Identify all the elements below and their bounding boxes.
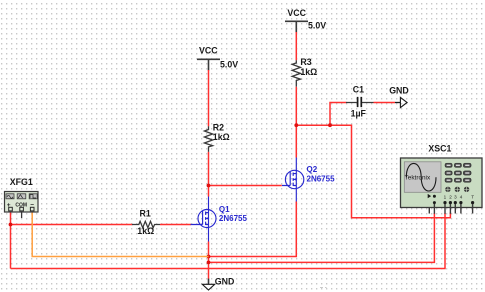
junction ground node A bbox=[207, 255, 211, 259]
wire R3 to Q2 drain bbox=[295, 87, 297, 158]
svg-text:Tektronix: Tektronix bbox=[405, 175, 431, 182]
svg-text:GND: GND bbox=[215, 277, 235, 287]
svg-text:VCC: VCC bbox=[287, 8, 306, 18]
wire C1 tap bbox=[330, 103, 347, 126]
svg-text:1µF: 1µF bbox=[351, 109, 367, 119]
svg-text:5.0V: 5.0V bbox=[308, 21, 326, 31]
svg-text:1kΩ: 1kΩ bbox=[300, 67, 317, 77]
capacitor C1 bbox=[346, 85, 374, 119]
wire node A to Q2 gate bbox=[209, 185, 282, 187]
svg-text:XSC1: XSC1 bbox=[428, 144, 451, 154]
junction node A bbox=[207, 184, 211, 188]
ground GND bbox=[202, 277, 234, 290]
svg-text:R1: R1 bbox=[140, 208, 151, 218]
svg-text:1kΩ: 1kΩ bbox=[213, 132, 230, 142]
resistor R2 bbox=[204, 123, 229, 152]
svg-text:VCC: VCC bbox=[199, 46, 218, 56]
wire XFG1 minus orange bbox=[32, 212, 208, 257]
wire R1 to Q1 gate bbox=[160, 224, 191, 226]
svg-text:4: 4 bbox=[460, 195, 463, 200]
scope terminal stubs bbox=[429, 204, 472, 214]
svg-text:3: 3 bbox=[454, 195, 457, 200]
wire XFG1 plus to scope channel 1 bbox=[11, 213, 446, 269]
power VCC1 bbox=[197, 46, 238, 71]
svg-text:2: 2 bbox=[449, 195, 452, 200]
wire VCC2 to R3 bbox=[295, 32, 297, 60]
svg-text:GND: GND bbox=[389, 86, 409, 96]
svg-text:XFG1: XFG1 bbox=[10, 177, 33, 187]
wire R2 to Q1 drain bbox=[208, 152, 210, 197]
XFG1 COM stub bbox=[21, 211, 23, 218]
svg-text:1kΩ: 1kΩ bbox=[137, 226, 154, 236]
svg-text:R3: R3 bbox=[300, 57, 311, 67]
wire output node to scope channel bbox=[296, 125, 450, 218]
wire VCC1 to R2 bbox=[208, 70, 210, 126]
oscilloscope XSC1 bbox=[401, 144, 483, 208]
svg-text:2N6755: 2N6755 bbox=[219, 214, 248, 223]
svg-text:Q1: Q1 bbox=[219, 205, 230, 214]
svg-text:Q2: Q2 bbox=[307, 165, 318, 174]
stray mark bbox=[320, 287, 327, 289]
wire C1 to GND connector bbox=[374, 102, 396, 104]
resistor R3 bbox=[292, 57, 317, 87]
svg-text:C1: C1 bbox=[353, 85, 364, 95]
junction C1 tap bbox=[328, 123, 332, 127]
resistor R1 bbox=[132, 208, 160, 236]
wire XFG1 plus to R1 bbox=[11, 212, 133, 269]
junction ground node B bbox=[207, 261, 211, 265]
on-page connector GND bbox=[389, 86, 409, 108]
junction output node bbox=[294, 123, 298, 127]
transistor Q1 bbox=[191, 197, 248, 242]
svg-text:2N6755: 2N6755 bbox=[307, 175, 336, 184]
junction XFG1 plus node bbox=[9, 223, 13, 227]
svg-text:T: T bbox=[471, 195, 474, 200]
wire Q2 source to ground node bbox=[209, 202, 297, 257]
transistor Q2 bbox=[282, 158, 335, 203]
power VCC2 bbox=[285, 8, 326, 33]
function generator XFG1 bbox=[5, 177, 39, 212]
svg-text:5.0V: 5.0V bbox=[220, 59, 238, 69]
wire Q1 source to ground node bbox=[208, 242, 210, 279]
wire ground node to scope G bbox=[209, 213, 435, 262]
svg-text:1: 1 bbox=[444, 195, 447, 200]
